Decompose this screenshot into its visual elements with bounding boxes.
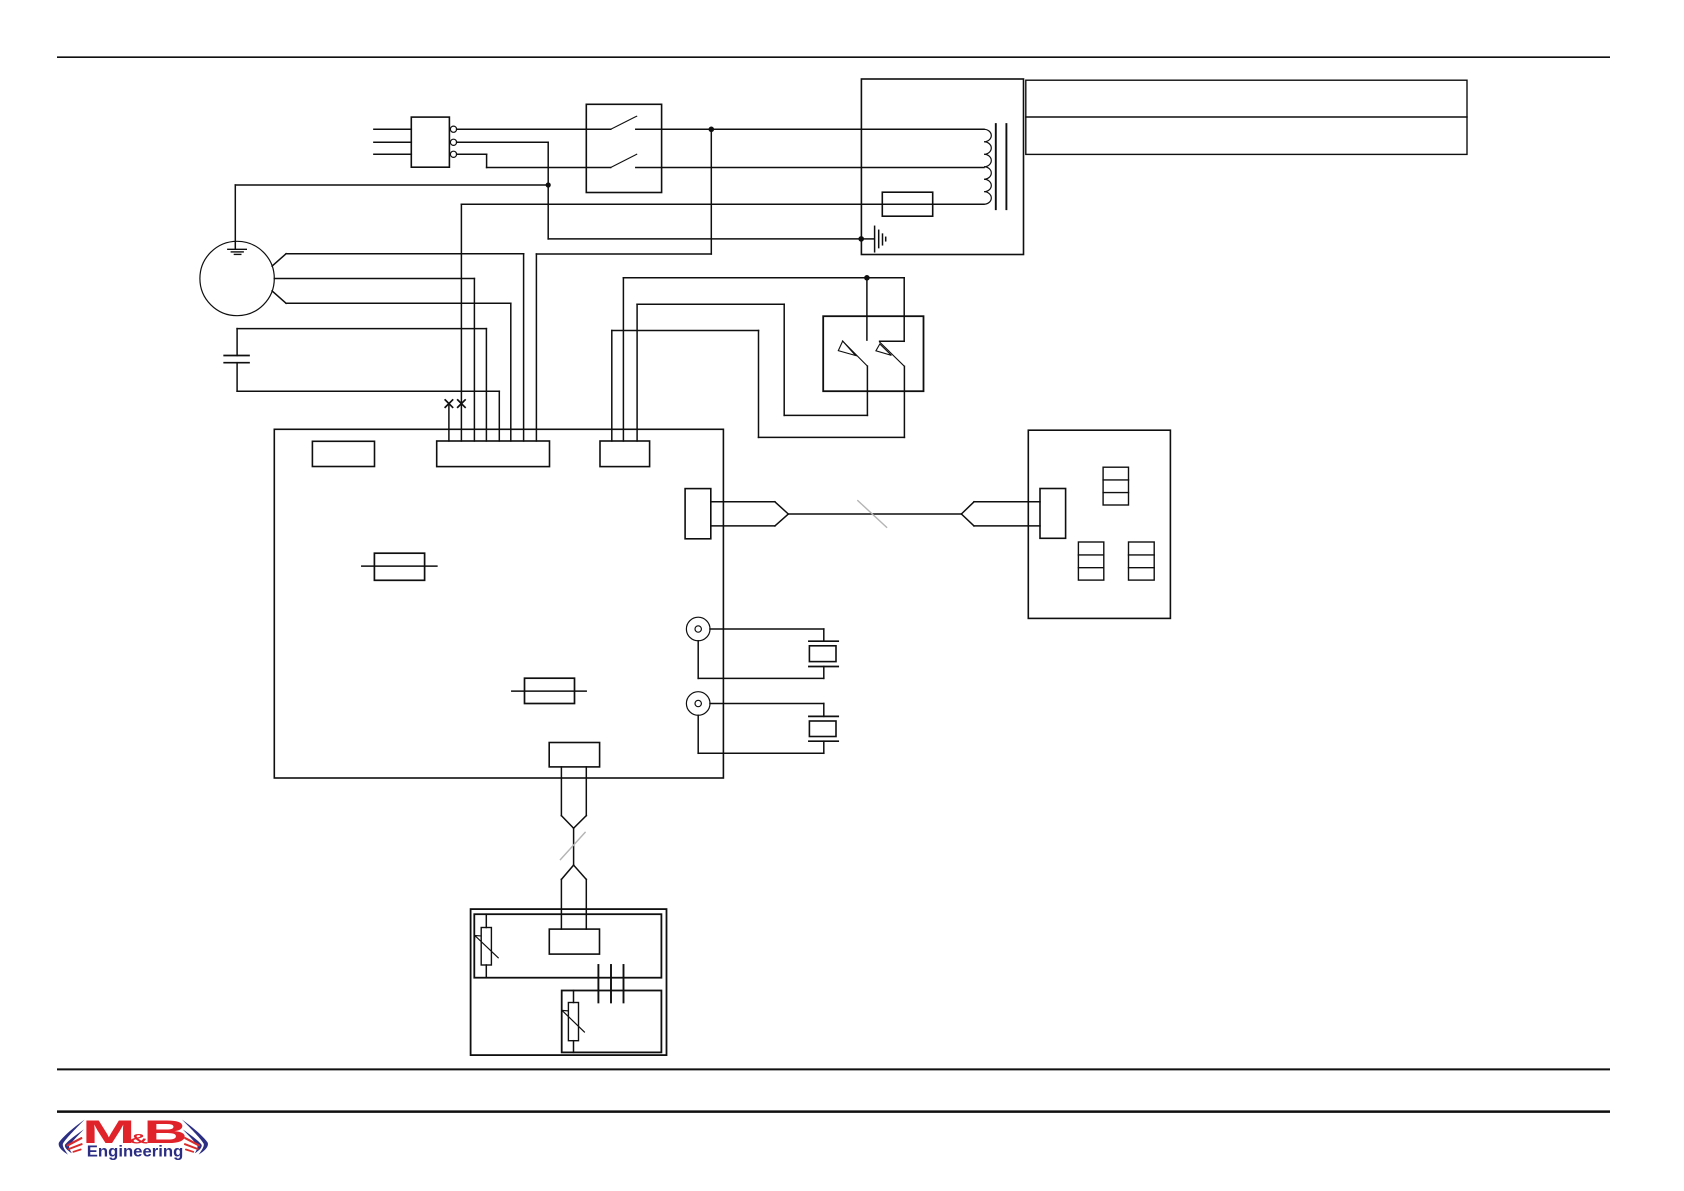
svg-text:Engineering: Engineering: [87, 1143, 184, 1160]
